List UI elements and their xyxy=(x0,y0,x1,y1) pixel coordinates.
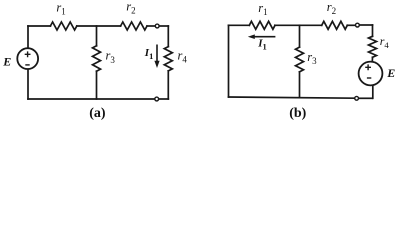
svg-text:E: E xyxy=(2,55,11,69)
wire: (a) top rail r2 to terminal xyxy=(147,25,155,27)
wire: (b) top rail r2 to terminal xyxy=(347,24,355,26)
wire: (a) left rail above source xyxy=(27,26,29,48)
node: (a) r3 junction wire from top rail xyxy=(96,26,98,46)
svg-text:(a): (a) xyxy=(89,106,106,121)
wire: (a) right rail upper segment xyxy=(167,26,169,47)
wire: (b) r4 to source top xyxy=(371,57,373,62)
node: (b) r3 junction wire from top rail xyxy=(299,25,301,47)
resistor R4 (b) xyxy=(369,36,377,57)
resistor R4 (a) xyxy=(164,47,172,71)
wire: (b) bottom rail main xyxy=(229,97,355,98)
svg-text:r4: r4 xyxy=(178,48,188,64)
wire: (a) r3 to bottom rail xyxy=(96,71,98,99)
resistor R2 (b) xyxy=(322,21,348,29)
svg-text:r2: r2 xyxy=(327,0,336,16)
plus sign of source E (a) xyxy=(25,51,31,57)
svg-text:r1: r1 xyxy=(258,1,267,17)
terminal: (b) top open circle xyxy=(356,23,360,27)
svg-text:r4: r4 xyxy=(380,34,390,50)
resistor R1 (b) xyxy=(249,21,275,29)
svg-text:r2: r2 xyxy=(126,0,135,16)
terminal: (a) bottom open circle xyxy=(155,97,159,101)
resistor R1 (a) xyxy=(50,22,76,30)
wire: (a) right rail lower segment xyxy=(167,71,169,99)
voltage source E (a) xyxy=(17,48,38,69)
resistor R3 (b) xyxy=(296,47,304,72)
wire: (b) source bottom to bottom rail xyxy=(372,85,374,98)
current arrow I1 (b) xyxy=(248,34,276,39)
minus sign of source E (a) xyxy=(25,64,29,66)
wire: (b) right rail above r4 xyxy=(372,25,374,36)
svg-text:(b): (b) xyxy=(289,106,306,121)
resistor R3 (a) xyxy=(93,46,101,71)
wire: circuit (a) top rail left segment xyxy=(28,25,50,27)
wire: (b) r3 to bottom rail xyxy=(299,72,301,98)
minus sign of source E (b) xyxy=(367,77,371,79)
current arrow I1 (a) xyxy=(154,45,159,69)
wire: circuit (b) top rail left segment xyxy=(229,24,250,26)
svg-text:I1: I1 xyxy=(257,38,267,52)
resistor R2 (a) xyxy=(121,22,147,30)
terminal: (b) bottom open circle xyxy=(355,96,359,100)
plus sign of source E (b) xyxy=(365,64,371,70)
svg-text:r3: r3 xyxy=(106,49,116,65)
wire: (a) top rail between r1 and r2 xyxy=(77,25,121,27)
wire: (b) bottom rail right of terminal xyxy=(359,97,372,99)
wire: (a) bottom rail main xyxy=(28,98,154,100)
wire: (a) bottom rail right of terminal xyxy=(159,98,168,100)
wire: (a) left rail top segment xyxy=(27,69,29,99)
svg-text:E: E xyxy=(386,66,395,80)
svg-text:I1: I1 xyxy=(144,47,154,61)
terminal: (a) top open circle xyxy=(155,24,159,28)
wire: (b) left rail xyxy=(228,25,230,97)
voltage source E (b) xyxy=(359,62,383,86)
wire: (a) top rail terminal to top-right corner xyxy=(160,25,169,27)
svg-text:r1: r1 xyxy=(56,1,65,17)
svg-text:r3: r3 xyxy=(307,50,317,66)
wire: (b) top rail terminal to corner xyxy=(360,24,373,26)
wire: (b) top rail between r1 and r2 xyxy=(275,24,322,26)
